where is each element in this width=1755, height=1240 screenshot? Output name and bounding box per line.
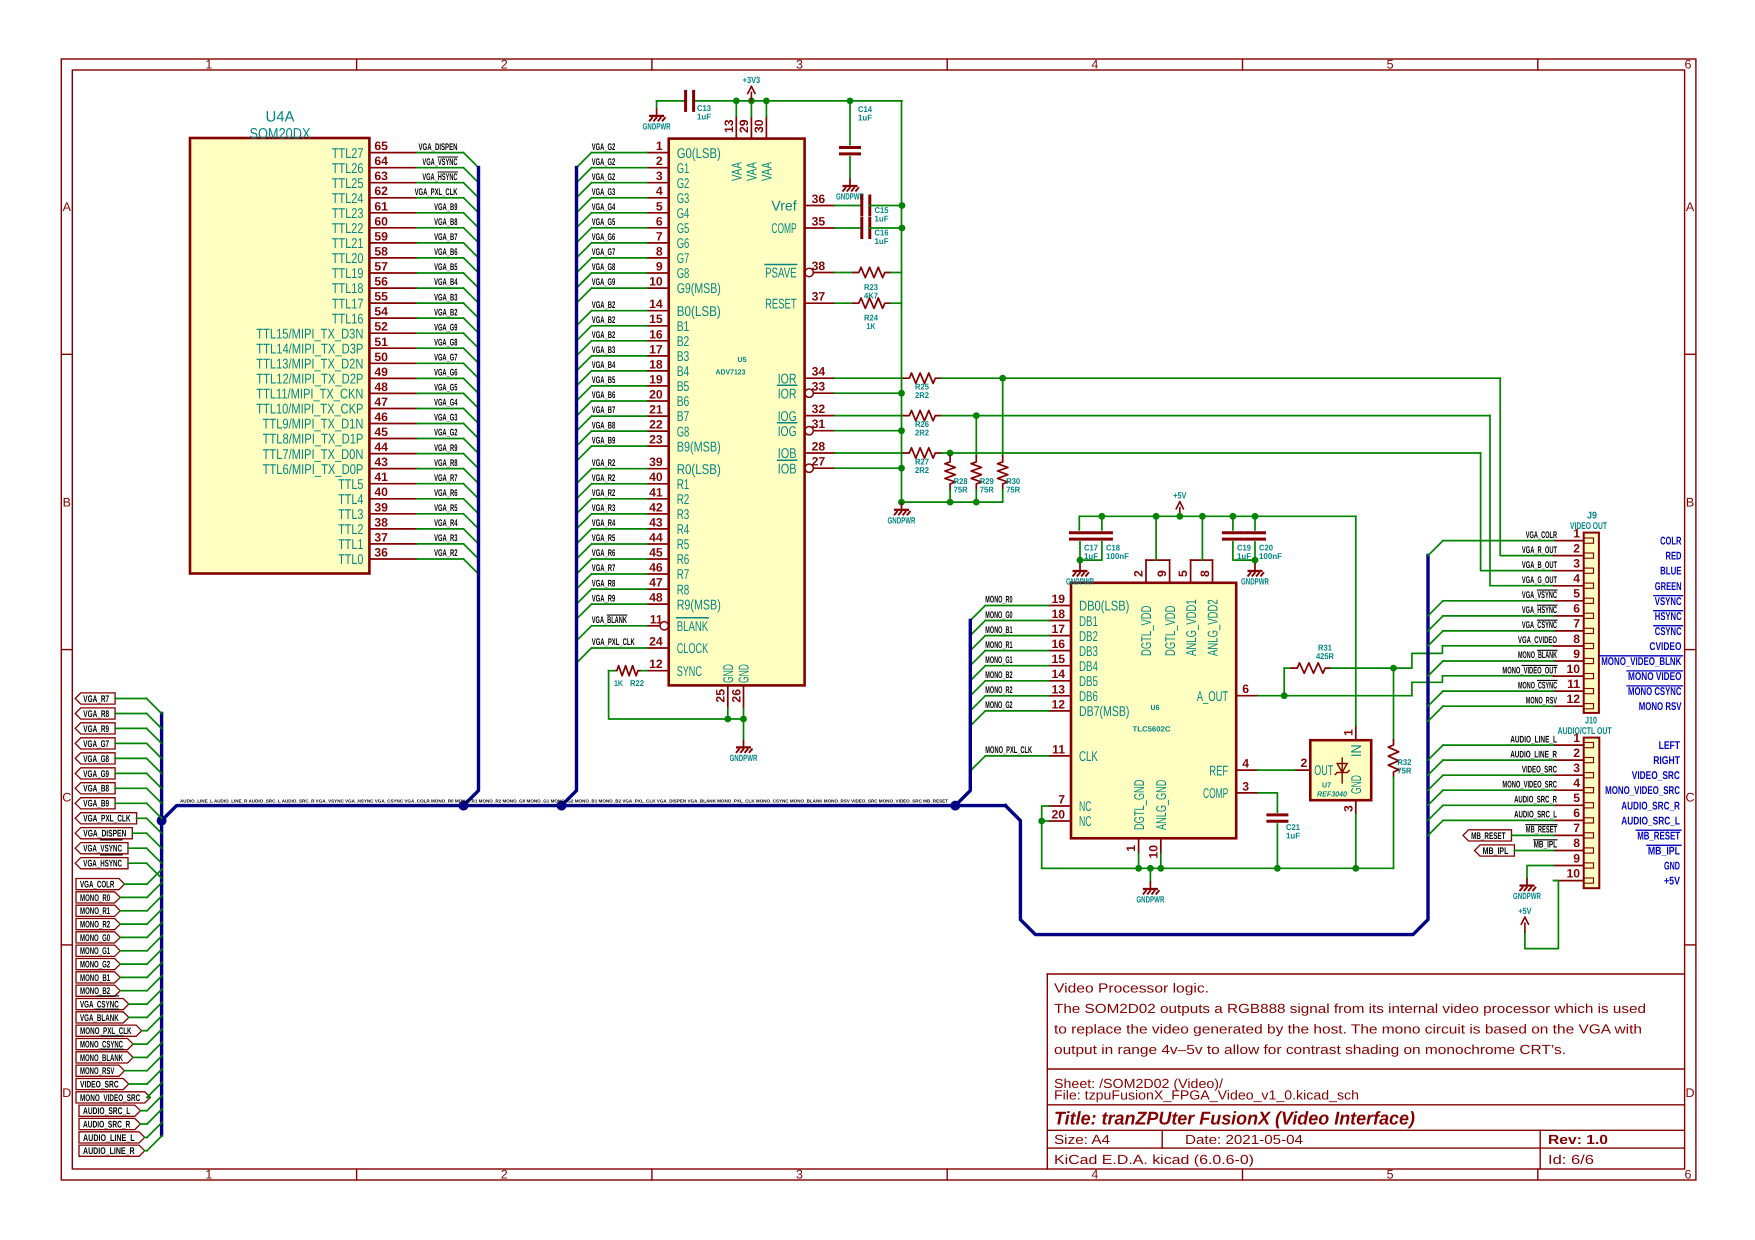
- svg-text:TTL15/MIPI_TX_D3N: TTL15/MIPI_TX_D3N: [256, 326, 363, 342]
- svg-text:R8: R8: [677, 582, 690, 598]
- svg-text:1: 1: [205, 1168, 212, 1182]
- svg-text:60: 60: [374, 214, 388, 228]
- svg-text:15: 15: [649, 312, 663, 326]
- svg-text:B1: B1: [677, 319, 690, 335]
- svg-text:20: 20: [1051, 808, 1065, 822]
- svg-text:RIGHT: RIGHT: [1653, 755, 1680, 767]
- svg-text:30: 30: [752, 119, 766, 133]
- svg-text:MONO_RSV: MONO_RSV: [1526, 695, 1558, 706]
- svg-text:AUDIO_SRC_L: AUDIO_SRC_L: [1621, 815, 1680, 827]
- svg-text:A: A: [63, 200, 72, 214]
- svg-text:2: 2: [1573, 746, 1580, 760]
- svg-text:TTL4: TTL4: [338, 492, 363, 508]
- svg-text:40: 40: [649, 470, 663, 484]
- svg-text:G7: G7: [677, 251, 690, 267]
- svg-text:50: 50: [374, 350, 388, 364]
- svg-text:G4: G4: [677, 206, 690, 222]
- svg-text:3: 3: [656, 169, 663, 183]
- svg-text:VGA_B2: VGA_B2: [434, 307, 457, 318]
- svg-text:VIDEO_SRC: VIDEO_SRC: [1632, 770, 1680, 782]
- svg-text:VGA_BLANK: VGA_BLANK: [592, 615, 627, 626]
- svg-text:AUDIO_LINE_L AUDIO_LINE_R AUDI: AUDIO_LINE_L AUDIO_LINE_R AUDIO_SRC_L AU…: [180, 799, 948, 804]
- svg-text:G9(MSB): G9(MSB): [677, 281, 721, 297]
- svg-text:VAA: VAA: [759, 162, 775, 181]
- svg-text:GNDPWR: GNDPWR: [730, 753, 758, 763]
- svg-text:7: 7: [1573, 821, 1580, 835]
- svg-text:Rev: 1.0: Rev: 1.0: [1548, 1132, 1608, 1147]
- svg-text:SOM20DX: SOM20DX: [250, 126, 311, 143]
- svg-text:10: 10: [1566, 662, 1580, 676]
- svg-text:G5: G5: [677, 221, 690, 237]
- svg-text:1uF: 1uF: [697, 112, 711, 122]
- svg-text:B6: B6: [677, 394, 690, 410]
- svg-text:1K: 1K: [614, 678, 623, 688]
- svg-text:VGA_G8: VGA_G8: [592, 262, 616, 273]
- svg-text:16: 16: [1051, 637, 1065, 651]
- svg-text:VAA: VAA: [744, 162, 760, 181]
- svg-text:SYNC: SYNC: [677, 664, 702, 680]
- svg-text:17: 17: [1051, 622, 1065, 636]
- svg-text:75R: 75R: [980, 485, 994, 495]
- svg-text:VGA_B9: VGA_B9: [592, 435, 615, 446]
- svg-text:MONO_B2: MONO_B2: [985, 670, 1012, 681]
- svg-text:J9: J9: [1587, 511, 1597, 522]
- svg-text:B0(LSB): B0(LSB): [677, 304, 721, 320]
- svg-text:MONO_R1: MONO_R1: [80, 906, 111, 917]
- svg-text:TTL24: TTL24: [332, 191, 364, 207]
- svg-text:62: 62: [374, 184, 388, 198]
- svg-text:C: C: [62, 791, 71, 805]
- svg-text:GND: GND: [737, 664, 753, 683]
- svg-text:MONO_R0: MONO_R0: [985, 595, 1012, 606]
- svg-text:VGA_B8: VGA_B8: [434, 217, 458, 228]
- svg-text:35: 35: [812, 215, 826, 229]
- svg-text:J10: J10: [1585, 716, 1597, 727]
- svg-text:RED: RED: [1666, 551, 1682, 563]
- svg-text:5: 5: [1176, 570, 1190, 577]
- svg-text:DB2: DB2: [1079, 629, 1098, 645]
- svg-text:B9(MSB): B9(MSB): [677, 439, 721, 455]
- svg-text:6: 6: [1573, 602, 1580, 616]
- svg-text:GNDPWR: GNDPWR: [888, 515, 916, 525]
- svg-text:IOG: IOG: [778, 424, 797, 440]
- svg-text:VGA_R_OUT: VGA_R_OUT: [1522, 545, 1557, 556]
- svg-text:14: 14: [1051, 667, 1065, 681]
- svg-text:32: 32: [812, 402, 826, 416]
- svg-text:17: 17: [649, 342, 663, 356]
- svg-text:MONO_G2: MONO_G2: [80, 960, 110, 971]
- svg-text:21: 21: [649, 403, 663, 417]
- svg-text:GNDPWR: GNDPWR: [1241, 577, 1269, 587]
- svg-text:COMP: COMP: [771, 221, 796, 237]
- svg-text:47: 47: [374, 395, 388, 409]
- svg-text:+3V3: +3V3: [743, 75, 761, 85]
- svg-text:26: 26: [729, 689, 743, 703]
- svg-text:Date: 2021-05-04: Date: 2021-05-04: [1185, 1132, 1303, 1147]
- svg-text:B: B: [1686, 495, 1694, 509]
- svg-text:TTL1: TTL1: [338, 537, 363, 553]
- svg-text:2: 2: [501, 1168, 508, 1182]
- svg-text:5: 5: [1573, 587, 1580, 601]
- svg-text:VGA_G9: VGA_G9: [592, 277, 615, 288]
- svg-text:VGA_R4: VGA_R4: [592, 518, 616, 529]
- svg-text:VGA_B7: VGA_B7: [434, 232, 457, 243]
- svg-text:VGA_G5: VGA_G5: [434, 383, 458, 394]
- svg-text:5: 5: [1387, 1168, 1394, 1182]
- svg-text:52: 52: [374, 320, 388, 334]
- svg-text:VGA_B5: VGA_B5: [592, 375, 616, 386]
- svg-text:IOR: IOR: [778, 386, 797, 402]
- svg-text:10: 10: [1146, 845, 1160, 859]
- svg-text:MB_RESET: MB_RESET: [1526, 825, 1557, 836]
- svg-text:DGTL_GND: DGTL_GND: [1132, 780, 1148, 830]
- svg-text:11: 11: [1567, 677, 1580, 691]
- svg-text:MONO_CSYNC: MONO_CSYNC: [1518, 680, 1557, 691]
- svg-text:MONO_G0: MONO_G0: [985, 610, 1012, 621]
- svg-text:CVIDEO: CVIDEO: [1649, 641, 1681, 653]
- svg-text:VGA_VSYNC: VGA_VSYNC: [422, 157, 457, 168]
- svg-text:MONO_G2: MONO_G2: [985, 700, 1012, 711]
- svg-text:TTL12/MIPI_TX_D2P: TTL12/MIPI_TX_D2P: [256, 372, 363, 388]
- svg-text:1K: 1K: [867, 321, 876, 331]
- svg-text:MB_IPL: MB_IPL: [1534, 840, 1557, 851]
- svg-text:45: 45: [649, 546, 663, 560]
- svg-text:VGA_R8: VGA_R8: [83, 709, 109, 720]
- svg-text:12: 12: [1051, 697, 1065, 711]
- svg-text:LEFT: LEFT: [1659, 740, 1681, 752]
- svg-text:VGA_B4: VGA_B4: [592, 360, 616, 371]
- svg-text:14: 14: [649, 297, 663, 311]
- svg-text:MONO_B1: MONO_B1: [985, 625, 1013, 636]
- svg-text:VGA_G5: VGA_G5: [592, 217, 616, 228]
- svg-text:MONO_R2: MONO_R2: [80, 920, 110, 931]
- svg-text:2: 2: [501, 58, 508, 72]
- svg-text:U7: U7: [1322, 781, 1331, 790]
- svg-text:TTL27: TTL27: [332, 146, 364, 162]
- svg-text:1uF: 1uF: [858, 113, 872, 123]
- svg-text:AUDIO_SRC_R: AUDIO_SRC_R: [1514, 795, 1557, 806]
- svg-text:48: 48: [374, 380, 388, 394]
- svg-text:VGA_VSYNC: VGA_VSYNC: [1522, 590, 1557, 601]
- svg-text:VSYNC: VSYNC: [1655, 596, 1682, 608]
- svg-text:11: 11: [650, 612, 663, 626]
- svg-text:VGA_R7: VGA_R7: [83, 694, 109, 705]
- svg-text:DB5: DB5: [1079, 674, 1098, 690]
- svg-text:VGA_VSYNC: VGA_VSYNC: [83, 844, 122, 855]
- svg-text:13: 13: [1051, 682, 1065, 696]
- svg-text:VGA_B8: VGA_B8: [83, 784, 109, 795]
- svg-text:TTL5: TTL5: [338, 477, 363, 493]
- svg-text:VGA_B6: VGA_B6: [434, 247, 457, 258]
- svg-text:R2: R2: [677, 492, 690, 508]
- svg-text:TTL22: TTL22: [332, 221, 364, 237]
- svg-text:VAA: VAA: [729, 162, 745, 181]
- svg-text:VGA_BLANK: VGA_BLANK: [80, 1013, 119, 1024]
- svg-text:MB_IPL: MB_IPL: [1483, 846, 1509, 857]
- svg-text:VGA_B9: VGA_B9: [83, 799, 109, 810]
- svg-text:VGA_G_OUT: VGA_G_OUT: [1522, 575, 1557, 586]
- svg-text:VGA_B3: VGA_B3: [592, 345, 615, 356]
- svg-text:64: 64: [374, 154, 388, 168]
- svg-text:9: 9: [656, 260, 663, 274]
- svg-text:output in range 4v–5v to allow: output in range 4v–5v to allow for contr…: [1054, 1042, 1566, 1057]
- svg-text:VGA_R6: VGA_R6: [592, 548, 615, 559]
- svg-text:Title: tranZPUter FusionX (Vid: Title: tranZPUter FusionX (Video Interfa…: [1054, 1108, 1415, 1129]
- svg-text:MONO_VIDEO_SRC: MONO_VIDEO_SRC: [1605, 785, 1680, 797]
- svg-text:2: 2: [1132, 570, 1146, 577]
- svg-text:VGA_G7: VGA_G7: [592, 247, 615, 258]
- svg-text:+5V: +5V: [1664, 876, 1680, 888]
- svg-text:PSAVE: PSAVE: [765, 266, 797, 282]
- svg-text:TTL18: TTL18: [332, 281, 364, 297]
- svg-text:MONO_PXL_CLK: MONO_PXL_CLK: [985, 745, 1032, 756]
- svg-text:4: 4: [1091, 58, 1098, 72]
- svg-text:D: D: [62, 1086, 71, 1100]
- svg-text:B4: B4: [677, 364, 690, 380]
- svg-text:VGA_B_OUT: VGA_B_OUT: [1522, 560, 1557, 571]
- svg-text:VGA_R9: VGA_R9: [592, 593, 615, 604]
- svg-text:VGA_G7: VGA_G7: [83, 739, 109, 750]
- svg-text:29: 29: [737, 119, 751, 133]
- svg-text:TTL25: TTL25: [332, 176, 364, 192]
- svg-text:GND: GND: [1349, 775, 1365, 794]
- svg-text:CLK: CLK: [1079, 749, 1098, 765]
- svg-text:VGA_HSYNC: VGA_HSYNC: [422, 172, 457, 183]
- svg-text:OUT: OUT: [1314, 763, 1333, 779]
- svg-text:U6: U6: [1151, 703, 1160, 712]
- svg-text:TLC5602C: TLC5602C: [1133, 725, 1172, 734]
- svg-text:VGA_R8: VGA_R8: [434, 458, 458, 469]
- svg-text:MONO VIDEO: MONO VIDEO: [1628, 671, 1682, 683]
- svg-text:VGA_R2: VGA_R2: [592, 488, 615, 499]
- svg-text:27: 27: [812, 455, 826, 469]
- svg-text:1uF: 1uF: [875, 214, 889, 224]
- svg-text:10: 10: [1566, 866, 1580, 880]
- svg-text:DB4: DB4: [1079, 659, 1098, 675]
- svg-text:to replace the video generated: to replace the video generated by the ho…: [1054, 1022, 1642, 1037]
- svg-text:47: 47: [649, 576, 663, 590]
- svg-text:38: 38: [812, 259, 826, 273]
- svg-text:4K7: 4K7: [864, 291, 878, 301]
- svg-text:DB0(LSB): DB0(LSB): [1079, 599, 1129, 615]
- svg-text:ANLG_VDD2: ANLG_VDD2: [1206, 599, 1222, 656]
- svg-text:TTL20: TTL20: [332, 251, 364, 267]
- svg-text:VGA_G2: VGA_G2: [592, 142, 615, 153]
- svg-text:4: 4: [1242, 757, 1249, 771]
- svg-text:VGA_G3: VGA_G3: [434, 413, 457, 424]
- svg-text:36: 36: [374, 546, 388, 560]
- svg-text:ANLG_VDD1: ANLG_VDD1: [1184, 599, 1200, 656]
- svg-text:A_OUT: A_OUT: [1197, 689, 1229, 705]
- svg-text:12: 12: [649, 657, 663, 671]
- svg-text:58: 58: [374, 244, 388, 258]
- svg-text:9: 9: [1573, 647, 1580, 661]
- svg-text:R9(MSB): R9(MSB): [677, 597, 721, 613]
- svg-text:1uF: 1uF: [1084, 551, 1098, 561]
- svg-text:GND: GND: [721, 664, 737, 683]
- svg-text:31: 31: [812, 417, 826, 431]
- svg-text:B2: B2: [677, 334, 690, 350]
- svg-text:CSYNC: CSYNC: [1655, 626, 1682, 638]
- svg-text:61: 61: [374, 199, 388, 213]
- svg-text:3: 3: [1573, 761, 1580, 775]
- svg-text:28: 28: [812, 440, 826, 454]
- svg-text:4: 4: [1573, 776, 1580, 790]
- svg-text:57: 57: [374, 260, 388, 274]
- svg-text:VGA_HSYNC: VGA_HSYNC: [83, 859, 122, 870]
- svg-text:VGA_B4: VGA_B4: [434, 277, 458, 288]
- svg-text:Vref: Vref: [771, 199, 796, 215]
- svg-text:65: 65: [374, 139, 388, 153]
- svg-text:VIDEO_SRC: VIDEO_SRC: [1522, 764, 1557, 775]
- svg-text:VGA_G2: VGA_G2: [434, 428, 457, 439]
- svg-text:TTL2: TTL2: [338, 522, 363, 538]
- svg-text:VGA_R3: VGA_R3: [434, 533, 457, 544]
- svg-text:7: 7: [1573, 617, 1580, 631]
- svg-text:MONO_VIDEO_OUT: MONO_VIDEO_OUT: [1502, 665, 1557, 676]
- svg-text:REF3040: REF3040: [1317, 790, 1348, 799]
- svg-text:TTL13/MIPI_TX_D2N: TTL13/MIPI_TX_D2N: [256, 357, 363, 373]
- svg-text:9: 9: [1573, 851, 1580, 865]
- svg-text:DGTL_VDD: DGTL_VDD: [1163, 606, 1179, 656]
- svg-text:MB_IPL: MB_IPL: [1648, 846, 1680, 858]
- svg-text:7: 7: [1058, 793, 1065, 807]
- svg-text:R0(LSB): R0(LSB): [677, 462, 721, 478]
- svg-text:VGA_G8: VGA_G8: [434, 337, 458, 348]
- svg-text:VGA_R2: VGA_R2: [592, 473, 615, 484]
- svg-text:3: 3: [796, 58, 803, 72]
- svg-text:MONO CSYNC: MONO CSYNC: [1628, 686, 1682, 698]
- svg-text:TTL10/MIPI_TX_CKP: TTL10/MIPI_TX_CKP: [256, 402, 363, 418]
- svg-text:VGA_B5: VGA_B5: [434, 262, 458, 273]
- svg-text:REF: REF: [1209, 763, 1228, 779]
- svg-text:3: 3: [796, 1168, 803, 1182]
- svg-text:3: 3: [1573, 557, 1580, 571]
- svg-text:R6: R6: [677, 552, 690, 568]
- svg-text:RESET: RESET: [765, 296, 797, 312]
- svg-text:MONO_BLANK: MONO_BLANK: [1518, 650, 1557, 661]
- svg-text:44: 44: [374, 440, 388, 454]
- svg-text:100nF: 100nF: [1106, 551, 1129, 561]
- svg-text:8: 8: [656, 244, 663, 258]
- svg-text:VGA_G2: VGA_G2: [592, 157, 615, 168]
- svg-text:1uF: 1uF: [1237, 551, 1251, 561]
- svg-text:VGA_B2: VGA_B2: [592, 315, 615, 326]
- svg-text:18: 18: [649, 357, 663, 371]
- svg-text:VGA_G4: VGA_G4: [592, 202, 616, 213]
- svg-text:8: 8: [1198, 570, 1212, 577]
- svg-text:File: tzpuFusionX_FPGA_Video_v: File: tzpuFusionX_FPGA_Video_v1_0.kicad_…: [1054, 1088, 1359, 1103]
- svg-text:G1: G1: [677, 161, 690, 177]
- svg-text:12: 12: [1566, 692, 1580, 706]
- svg-text:MB_RESET: MB_RESET: [1471, 831, 1505, 842]
- svg-text:MONO_RSV: MONO_RSV: [80, 1066, 115, 1077]
- svg-text:VGA_B7: VGA_B7: [592, 405, 615, 416]
- svg-text:TTL16: TTL16: [332, 311, 364, 327]
- svg-text:15: 15: [1051, 652, 1065, 666]
- svg-text:56: 56: [374, 275, 388, 289]
- svg-text:19: 19: [649, 372, 663, 386]
- svg-text:2: 2: [1573, 541, 1580, 555]
- svg-text:NC: NC: [1079, 814, 1092, 830]
- svg-text:VGA_HSYNC: VGA_HSYNC: [1522, 605, 1557, 616]
- svg-text:6: 6: [1685, 1168, 1692, 1182]
- svg-text:R22: R22: [630, 678, 644, 688]
- svg-text:VGA_R5: VGA_R5: [592, 533, 616, 544]
- svg-text:44: 44: [649, 531, 663, 545]
- svg-text:VGA_R7: VGA_R7: [592, 563, 615, 574]
- svg-text:IN: IN: [1349, 744, 1365, 757]
- svg-text:36: 36: [812, 192, 826, 206]
- svg-text:2R2: 2R2: [915, 390, 929, 400]
- svg-text:TTL19: TTL19: [332, 266, 364, 282]
- svg-text:DB1: DB1: [1079, 614, 1098, 630]
- svg-text:AUDIO_LINE_L: AUDIO_LINE_L: [83, 1133, 135, 1144]
- svg-text:46: 46: [374, 410, 388, 424]
- svg-text:DGTL_VDD: DGTL_VDD: [1139, 606, 1155, 656]
- svg-text:TTL6/MIPI_TX_D0P: TTL6/MIPI_TX_D0P: [263, 462, 364, 478]
- svg-text:6: 6: [1685, 58, 1692, 72]
- svg-text:6: 6: [656, 214, 663, 228]
- svg-text:CLOCK: CLOCK: [677, 641, 709, 657]
- svg-text:VGA_PXL_CLK: VGA_PXL_CLK: [83, 814, 130, 825]
- svg-text:MONO RSV: MONO RSV: [1639, 701, 1682, 713]
- svg-text:TTL8/MIPI_TX_D1P: TTL8/MIPI_TX_D1P: [263, 432, 364, 448]
- svg-text:4: 4: [656, 184, 663, 198]
- svg-text:10: 10: [649, 275, 663, 289]
- svg-text:100nF: 100nF: [1259, 551, 1282, 561]
- svg-text:TTL3: TTL3: [338, 507, 363, 523]
- svg-text:MONO_R1: MONO_R1: [985, 640, 1013, 651]
- svg-text:TTL0: TTL0: [338, 552, 363, 568]
- svg-text:VGA_PXL_CLK: VGA_PXL_CLK: [415, 187, 458, 198]
- svg-text:R4: R4: [677, 522, 690, 538]
- svg-text:41: 41: [374, 470, 388, 484]
- svg-text:DB3: DB3: [1079, 644, 1098, 660]
- svg-text:R1: R1: [677, 477, 690, 493]
- svg-text:AUDIO_SRC_L: AUDIO_SRC_L: [1514, 810, 1557, 821]
- svg-text:AUDIO_LINE_R: AUDIO_LINE_R: [83, 1146, 135, 1157]
- svg-text:+5V: +5V: [1518, 906, 1531, 916]
- svg-text:MONO_G0: MONO_G0: [80, 933, 110, 944]
- svg-text:38: 38: [374, 515, 388, 529]
- svg-text:6: 6: [1242, 682, 1249, 696]
- svg-text:The SOM2D02 outputs a RGB888 s: The SOM2D02 outputs a RGB888 signal from…: [1054, 1001, 1646, 1016]
- svg-text:48: 48: [649, 591, 663, 605]
- svg-text:11: 11: [1052, 742, 1065, 756]
- svg-text:GNDPWR: GNDPWR: [643, 121, 671, 131]
- svg-text:TTL17: TTL17: [332, 296, 364, 312]
- svg-text:6: 6: [1573, 806, 1580, 820]
- svg-text:MONO_VIDEO_BLNK: MONO_VIDEO_BLNK: [1601, 656, 1681, 668]
- svg-text:2R2: 2R2: [915, 465, 929, 475]
- svg-text:8: 8: [1573, 632, 1580, 646]
- svg-text:22: 22: [649, 418, 663, 432]
- svg-text:U4A: U4A: [266, 109, 295, 126]
- svg-text:G6: G6: [677, 236, 690, 252]
- svg-text:GREEN: GREEN: [1655, 581, 1682, 593]
- svg-text:AUDIO_SRC_R: AUDIO_SRC_R: [1621, 800, 1680, 812]
- svg-text:VGA_G9: VGA_G9: [83, 769, 109, 780]
- svg-text:8: 8: [1573, 836, 1580, 850]
- svg-text:TTL7/MIPI_TX_D0N: TTL7/MIPI_TX_D0N: [263, 447, 364, 463]
- svg-text:VGA_R9: VGA_R9: [434, 443, 457, 454]
- svg-text:VGA_COLR: VGA_COLR: [80, 880, 114, 891]
- svg-text:425R: 425R: [1316, 651, 1334, 661]
- svg-text:VGA_G9: VGA_G9: [434, 322, 457, 333]
- svg-text:MONO_R2: MONO_R2: [985, 685, 1012, 696]
- svg-text:43: 43: [649, 515, 663, 529]
